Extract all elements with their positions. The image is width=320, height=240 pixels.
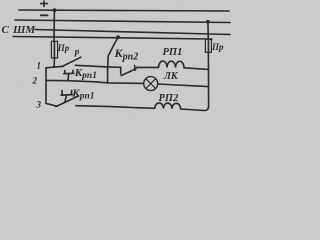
fuse Pr left (rect with through line) [51, 41, 57, 58]
bus line L4 [13, 37, 212, 40]
contact Krp1 (row3) bar [61, 94, 73, 97]
wire: right drop from L2 dot to fuse2 [207, 22, 209, 40]
bus line L3 (SHM) [35, 30, 230, 35]
contact Krp1 (row3) stem [65, 95, 67, 102]
minus symbol [41, 14, 48, 16]
lamp LK cross [146, 79, 156, 89]
Krp2 contact step down [120, 67, 122, 74]
Krp2 contact blade [121, 69, 136, 76]
wire: left drop from L1 to fuse [53, 10, 55, 41]
bus line L2 (-) [15, 20, 230, 23]
wire: right edge vertical [207, 52, 209, 106]
coil RP1 (3 humps) [159, 61, 185, 68]
row 3 wire: after contact to coil RP2 [76, 106, 155, 109]
node dot on L2 right [206, 20, 210, 24]
fuse Pr right (rect with through line) [205, 39, 211, 52]
coil RP2 (3 humps) [155, 103, 181, 109]
wire: slant from L4 dot down to node A on row 1 [108, 38, 118, 67]
Krp2 fixed contact tick [134, 66, 136, 71]
circuit schematic: relay control circuit (scanned Russian textbook figure) [0, 0, 233, 121]
contact Krp1 (row2) bar [64, 72, 74, 74]
lamp row wire to right edge [158, 84, 209, 87]
bus line L1 (+) [19, 10, 229, 11]
contact p blade [62, 57, 81, 66]
row 1 wire: terminal to contact p [46, 66, 63, 68]
row 1 wire: coil RP1 to right edge [184, 68, 209, 70]
row 1 wire: after contact p to Krp2 step [75, 65, 120, 67]
node dot on L1 [53, 8, 57, 12]
contact Krp1 (row3) ticks [62, 90, 72, 95]
wire: fuse to row1 [53, 58, 55, 67]
node dot on L4 [116, 35, 120, 39]
lamp LK circle [144, 77, 158, 91]
row 1 wire: Krp2 to coil RP1 [137, 66, 159, 68]
row 3 wire: coil RP2 to rounded corner up right edge [181, 106, 209, 111]
plus symbol [41, 1, 48, 7]
contact Krp1 (row2) stem [67, 74, 70, 81]
wire: left edge vertical joining rows 1-3 [45, 68, 47, 104]
wire: node A drop to lamp row [107, 66, 109, 83]
contact Krp1 (row2) ticks [65, 70, 73, 73]
row 2 wire: terminal 2 through contact to lamp [46, 80, 144, 83]
row 3 wire: terminal 3 to contact [46, 103, 57, 106]
contact Krp1 (row3) blade [56, 96, 79, 107]
